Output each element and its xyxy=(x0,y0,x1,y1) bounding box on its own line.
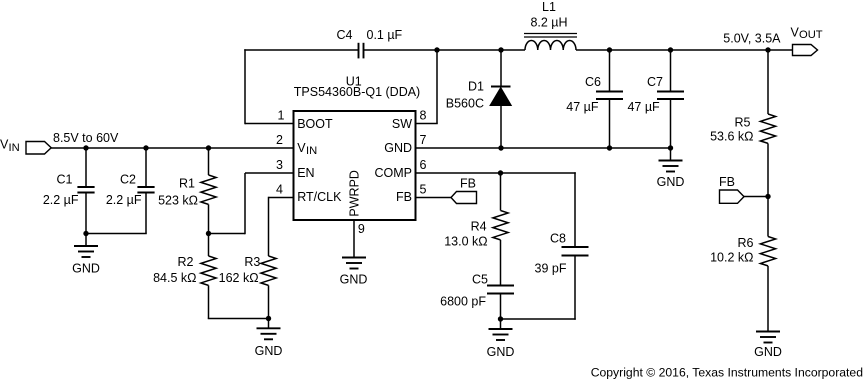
wire C7 bottom stub xyxy=(670,99,672,148)
wire EN to IC xyxy=(245,172,294,174)
inductor L1 xyxy=(524,34,577,51)
resistor R2 xyxy=(201,256,216,285)
svg-text:C2: C2 xyxy=(120,173,136,187)
wire C5 bottom xyxy=(500,294,502,320)
ground under C1/C2 xyxy=(74,246,98,257)
node R1/VIN junction xyxy=(206,145,211,150)
svg-text:C6: C6 xyxy=(585,75,601,89)
svg-text:R6: R6 xyxy=(738,236,754,250)
svg-text:7: 7 xyxy=(420,133,427,147)
node D1 top junction xyxy=(498,47,503,52)
wire COMP from IC xyxy=(415,172,576,174)
svg-text:13.0 kΩ: 13.0 kΩ xyxy=(444,234,487,248)
resistor R3 xyxy=(261,256,276,285)
node R5/R6/FB junction xyxy=(765,194,770,199)
svg-text:C8: C8 xyxy=(550,232,566,246)
wire VIN rail xyxy=(51,147,294,149)
wire SW to IC xyxy=(415,123,438,125)
svg-text:R4: R4 xyxy=(471,220,487,234)
node R2/R3 ground junction xyxy=(266,316,271,321)
wire EN link horizontal xyxy=(209,233,246,235)
wire output rail xyxy=(576,49,793,51)
node C1/C2 ground junction xyxy=(83,231,88,236)
capacitor C1 xyxy=(77,187,94,193)
node R4 top junction xyxy=(498,170,503,175)
svg-text:8.5V to 60V: 8.5V to 60V xyxy=(53,131,119,145)
wire BOOT to IC xyxy=(245,123,294,125)
node C2/VIN junction xyxy=(143,145,148,150)
svg-text:COMP: COMP xyxy=(375,166,413,180)
wire ground stub xyxy=(268,319,270,329)
svg-text:8: 8 xyxy=(420,109,427,123)
svg-text:GND: GND xyxy=(340,273,368,287)
wire R6 bottom xyxy=(767,266,769,332)
svg-text:FB: FB xyxy=(396,190,412,204)
svg-text:IN: IN xyxy=(9,142,20,154)
wire FB from IC pin 5 xyxy=(415,197,451,199)
svg-text:C7: C7 xyxy=(647,75,663,89)
svg-text:39 pF: 39 pF xyxy=(535,261,567,275)
svg-text:Copyright © 2016, Texas Instru: Copyright © 2016, Texas Instruments Inco… xyxy=(591,366,863,380)
capacitor C5 xyxy=(487,286,514,294)
port FB tag right xyxy=(720,190,745,203)
node R1/R2/EN junction xyxy=(206,231,211,236)
capacitor C6 xyxy=(596,92,623,100)
resistor R1 xyxy=(201,175,216,204)
wire ground stub xyxy=(500,319,502,329)
wire R6 top xyxy=(767,197,769,237)
wire D1 cathode stub xyxy=(500,50,502,87)
svg-text:GND: GND xyxy=(487,345,515,359)
svg-text:GND: GND xyxy=(72,262,100,276)
svg-text:2.2 µF: 2.2 µF xyxy=(106,193,142,207)
node C7 bottom ground junction xyxy=(668,145,673,150)
wire R4 to C5 xyxy=(500,240,502,286)
wire C2 to C1 bottom link xyxy=(86,233,147,235)
svg-text:53.6 kΩ: 53.6 kΩ xyxy=(710,129,753,143)
wire C8 bottom xyxy=(574,256,576,320)
wire C6 bottom stub xyxy=(609,99,611,148)
wire top rail D1 to L1 xyxy=(501,49,525,51)
svg-text:TPS54360B-Q1 (DDA): TPS54360B-Q1 (DDA) xyxy=(294,85,420,99)
wire ground stub xyxy=(670,148,672,161)
svg-text:1: 1 xyxy=(278,109,285,123)
svg-text:3: 3 xyxy=(276,158,283,172)
svg-text:BOOT: BOOT xyxy=(297,117,333,131)
svg-text:523 kΩ: 523 kΩ xyxy=(158,193,198,207)
node C1/VIN junction xyxy=(83,145,88,150)
node R5 top junction xyxy=(765,47,770,52)
node C5/C8 ground junction xyxy=(498,316,503,321)
wire C2 bottom xyxy=(145,193,147,234)
svg-text:5.0V, 3.5A: 5.0V, 3.5A xyxy=(723,32,781,46)
node C7 top junction xyxy=(668,47,673,52)
port FB tag left xyxy=(451,192,477,204)
wire top rail to C4 xyxy=(244,49,358,51)
svg-text:R1: R1 xyxy=(179,177,195,191)
node SW riser junction xyxy=(434,47,439,52)
port VOUT tag xyxy=(793,45,818,56)
svg-text:4: 4 xyxy=(276,183,283,197)
svg-text:C5: C5 xyxy=(472,273,488,287)
svg-text:SW: SW xyxy=(392,117,412,131)
svg-text:R3: R3 xyxy=(244,255,260,269)
svg-text:FB: FB xyxy=(719,175,735,189)
ground under C5 xyxy=(489,329,513,340)
svg-text:2.2 µF: 2.2 µF xyxy=(43,193,79,207)
svg-text:6: 6 xyxy=(420,158,427,172)
svg-text:10.2 kΩ: 10.2 kΩ xyxy=(710,250,753,264)
svg-text:R2: R2 xyxy=(178,255,194,269)
wire R5 bottom xyxy=(767,143,769,196)
resistor R4 xyxy=(493,211,508,240)
svg-text:9: 9 xyxy=(358,222,365,236)
svg-text:5: 5 xyxy=(420,183,427,197)
wire SW vertical riser xyxy=(436,50,438,124)
svg-text:47 µF: 47 µF xyxy=(627,100,660,114)
wire RT/CLK to IC xyxy=(269,197,295,199)
wire C8 to C5 bottom link xyxy=(501,318,576,320)
IC U1 TPS54360B-Q1 xyxy=(294,111,416,220)
ground under C7 xyxy=(659,161,683,172)
svg-text:B560C: B560C xyxy=(446,96,484,110)
wire R3 top vertical xyxy=(268,197,270,256)
wire ground stub xyxy=(85,234,87,247)
svg-text:L1: L1 xyxy=(542,0,556,14)
svg-text:GND: GND xyxy=(657,175,685,189)
svg-text:84.5 kΩ: 84.5 kΩ xyxy=(153,271,196,285)
svg-text:OUT: OUT xyxy=(799,29,823,41)
wire R2 to R3 bottom link xyxy=(208,318,269,320)
wire C2 top stub xyxy=(145,148,147,187)
wire R2 bottom xyxy=(208,285,210,318)
svg-text:IN: IN xyxy=(306,145,317,157)
svg-text:C4: C4 xyxy=(337,28,353,42)
wire C1 bottom xyxy=(85,193,87,234)
wire C7 top stub xyxy=(670,50,672,92)
capacitor C8 xyxy=(562,247,589,256)
wire pin 9 ground stub xyxy=(353,220,355,258)
wire C6 top stub xyxy=(609,50,611,92)
svg-text:47 µF: 47 µF xyxy=(566,100,599,114)
diode D1 B560C xyxy=(490,87,511,106)
wire C4 to D1 top rail xyxy=(364,49,502,51)
svg-text:0.1 µF: 0.1 µF xyxy=(367,28,403,42)
wire C8 riser xyxy=(574,172,576,247)
ground under R6 xyxy=(756,332,780,343)
node C6 bottom junction xyxy=(607,145,612,150)
wire EN vertical xyxy=(244,173,246,234)
wire FB tag to junction xyxy=(744,196,768,198)
wire R1 top stub xyxy=(208,148,210,175)
svg-text:8.2 µH: 8.2 µH xyxy=(530,16,567,30)
svg-text:GND: GND xyxy=(384,141,412,155)
capacitor C4 xyxy=(359,43,364,59)
svg-text:RT/CLK: RT/CLK xyxy=(297,190,342,204)
svg-text:162 kΩ: 162 kΩ xyxy=(219,271,259,285)
svg-text:EN: EN xyxy=(297,166,314,180)
port VIN tag xyxy=(26,142,51,155)
wire GND rail from pin 7 xyxy=(415,147,671,149)
svg-text:FB: FB xyxy=(460,177,476,191)
wire R3 bottom xyxy=(268,285,270,318)
wire R2 top xyxy=(208,234,210,257)
svg-text:2: 2 xyxy=(276,133,283,147)
wire R1 bottom xyxy=(208,204,210,233)
svg-text:D1: D1 xyxy=(468,79,484,93)
svg-text:PWRPD: PWRPD xyxy=(348,170,362,217)
node C6 top junction xyxy=(607,47,612,52)
ground under R2/R3 xyxy=(257,328,281,339)
resistor R5 xyxy=(760,114,775,143)
svg-text:6800 pF: 6800 pF xyxy=(440,295,486,309)
svg-text:R5: R5 xyxy=(735,116,751,130)
wire C1 top stub xyxy=(85,148,87,187)
svg-text:V: V xyxy=(297,141,306,155)
ground under pin 9 xyxy=(342,258,366,269)
svg-text:C1: C1 xyxy=(57,173,73,187)
wire D1 anode stub xyxy=(500,106,502,149)
svg-text:GND: GND xyxy=(754,345,782,359)
node D1 bottom junction xyxy=(498,145,503,150)
wire R4 top xyxy=(500,173,502,211)
capacitor C7 xyxy=(657,92,684,100)
svg-text:GND: GND xyxy=(255,344,283,358)
wire BOOT vertical riser xyxy=(244,49,246,124)
capacitor C2 xyxy=(137,187,154,193)
resistor R6 xyxy=(760,237,775,266)
wire R5 top xyxy=(767,50,769,114)
